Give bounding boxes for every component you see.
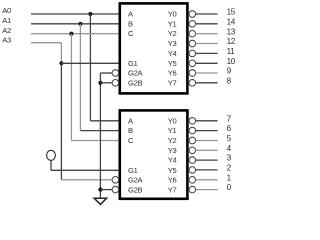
wire A1 horizontal to U1 pin B — [31, 23, 120, 25]
U1 G2B input bubble — [112, 80, 119, 87]
wire T1 vertical — [50, 160, 52, 170]
svg-text:13: 13 — [227, 27, 236, 36]
svg-text:B: B — [128, 19, 133, 28]
node A0 label — [2, 6, 11, 15]
wire U2 G2B branch — [100, 189, 112, 191]
svg-text:G1: G1 — [128, 59, 138, 68]
wire U2 Y7 output — [196, 189, 218, 191]
junction A3 / U1 G1 — [59, 61, 63, 65]
terminal T1 (input connector circle) — [47, 150, 56, 160]
svg-text:G2B: G2B — [128, 185, 143, 194]
svg-text:G2A: G2A — [128, 69, 144, 78]
svg-text:B: B — [128, 126, 133, 135]
svg-text:11: 11 — [227, 47, 236, 56]
junction U1 G2B — [98, 81, 102, 85]
svg-text:14: 14 — [227, 17, 236, 26]
svg-text:Y2: Y2 — [168, 29, 177, 38]
wire U1 Y7 output — [196, 82, 218, 84]
U1 Y1 output bubble — [189, 21, 196, 28]
wire A0 to U2 pin A — [90, 120, 119, 122]
wire U2 Y5 output — [196, 169, 218, 171]
wire A3 horizontal — [31, 42, 61, 44]
svg-text:G1: G1 — [128, 166, 138, 175]
svg-text:A0: A0 — [2, 6, 11, 15]
svg-text:Y3: Y3 — [168, 146, 177, 155]
svg-text:Y6: Y6 — [168, 176, 177, 185]
U2 Y1 output bubble — [189, 127, 196, 134]
svg-text:Y7: Y7 — [168, 78, 177, 87]
svg-text:G2A: G2A — [128, 176, 144, 185]
U1 G2A input bubble — [112, 70, 119, 77]
svg-text:A3: A3 — [2, 35, 11, 44]
svg-text:12: 12 — [227, 37, 236, 46]
U2 G2B input bubble — [112, 186, 119, 193]
wire U1 Y1 output — [196, 23, 218, 25]
wire A3 vertical upper — [60, 43, 62, 64]
U1 Y7 output bubble — [189, 80, 196, 87]
wire A3 vertical lower — [60, 63, 62, 180]
wire U2 Y2 output — [196, 140, 218, 142]
U1 Y3 output bubble — [189, 40, 196, 47]
wire A0 vertical drop — [89, 14, 91, 121]
svg-text:Y5: Y5 — [168, 166, 177, 175]
wire U2 Y3 output — [196, 149, 218, 151]
U1 Y4 output bubble — [189, 50, 196, 57]
wire enable tie vertical — [99, 73, 101, 198]
wire A1 vertical drop — [79, 24, 81, 131]
U2 Y4 output bubble — [189, 157, 196, 164]
wire U2 Y1 output — [196, 130, 218, 132]
node A3 label — [2, 35, 11, 44]
svg-text:15: 15 — [227, 8, 236, 17]
U1 Y2 output bubble — [189, 30, 196, 37]
U1 Y6 output bubble — [189, 70, 196, 77]
U2 Y7 output bubble — [189, 186, 196, 193]
svg-text:Y1: Y1 — [168, 126, 177, 135]
wire A0 horizontal to U1 pin A — [31, 13, 120, 15]
op IC U1 (3-to-8 decoder) body — [120, 3, 188, 93]
wire U1 Y2 output — [196, 33, 218, 35]
U1 Y5 output bubble — [189, 60, 196, 67]
svg-text:Y6: Y6 — [168, 69, 177, 78]
wire U1 Y6 output — [196, 72, 218, 74]
wire A3 to U2 pin G2A — [61, 179, 112, 181]
svg-text:Y4: Y4 — [168, 49, 177, 58]
svg-text:C: C — [128, 29, 134, 38]
junction U2 G2B / ground — [98, 188, 102, 192]
wire U1 G2A to tie vertical — [100, 72, 112, 74]
U2 Y2 output bubble — [189, 137, 196, 144]
junction A1 — [78, 22, 82, 26]
U2 G2A input bubble — [112, 177, 119, 184]
wire U1 Y4 output — [196, 52, 218, 54]
svg-text:C: C — [128, 136, 134, 145]
wire U2 Y4 output — [196, 159, 218, 161]
ground — [94, 198, 106, 204]
wire U1 Y0 output — [196, 13, 218, 15]
wire U2 Y6 output — [196, 179, 218, 181]
wire U1 Y3 output — [196, 43, 218, 45]
U2 Y3 output bubble — [189, 147, 196, 154]
wire T1 to U2 pin G1 — [51, 169, 120, 171]
wire U2 Y0 output — [196, 120, 218, 122]
node A1 label — [2, 16, 11, 25]
U2 Y0 output bubble — [189, 118, 196, 125]
wire A2 to U2 pin C — [71, 140, 119, 142]
U1 Y0 output bubble — [189, 11, 196, 18]
svg-text:Y3: Y3 — [168, 39, 177, 48]
junction A2 — [69, 32, 73, 36]
wire A2 horizontal to U1 pin C — [31, 33, 120, 35]
svg-text:10: 10 — [227, 57, 236, 66]
junction A0 — [88, 12, 92, 16]
wire U1 G2B branch — [100, 82, 112, 84]
svg-text:Y5: Y5 — [168, 59, 177, 68]
svg-text:A1: A1 — [2, 16, 11, 25]
svg-text:Y0: Y0 — [168, 10, 177, 19]
svg-text:Y2: Y2 — [168, 136, 177, 145]
svg-text:A2: A2 — [2, 26, 11, 35]
wire A2 vertical drop — [70, 34, 72, 141]
node A2 label — [2, 26, 11, 35]
wire A1 to U2 pin B — [80, 130, 119, 132]
svg-text:G2B: G2B — [128, 78, 143, 87]
svg-text:Y7: Y7 — [168, 185, 177, 194]
U2 Y5 output bubble — [189, 167, 196, 174]
wire A3 to U1 pin G1 — [61, 62, 119, 64]
svg-text:Y1: Y1 — [168, 19, 177, 28]
wire U1 Y5 output — [196, 62, 218, 64]
svg-text:Y4: Y4 — [168, 156, 177, 165]
IC U2 (3-to-8 decoder) body — [120, 110, 188, 198]
U2 Y6 output bubble — [189, 177, 196, 184]
svg-text:Y0: Y0 — [168, 116, 177, 125]
